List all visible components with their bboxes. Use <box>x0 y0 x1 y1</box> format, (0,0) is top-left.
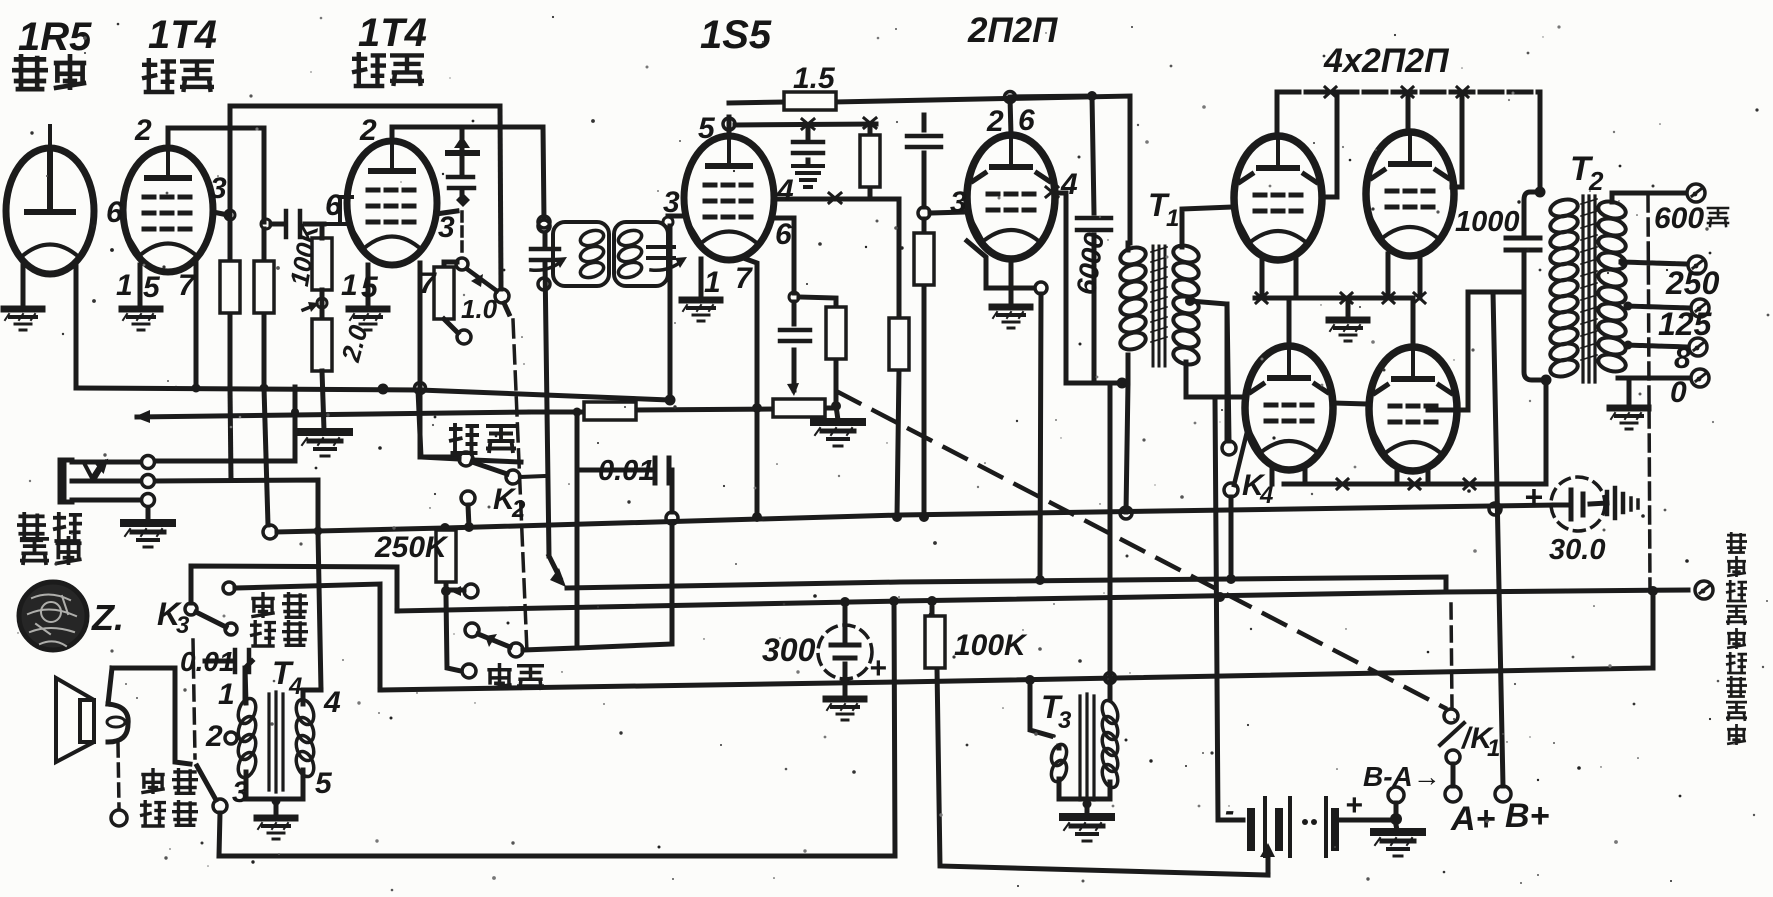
svg-text:30.0: 30.0 <box>1549 534 1605 566</box>
svg-text:0.01: 0.01 <box>598 455 654 487</box>
svg-text:3: 3 <box>663 186 680 219</box>
svg-text:0.01: 0.01 <box>180 646 235 677</box>
svg-text:250: 250 <box>1665 265 1720 301</box>
svg-text:2: 2 <box>205 720 223 753</box>
svg-text:1T4: 1T4 <box>148 13 217 57</box>
svg-text:B-A→: B-A→ <box>1363 761 1441 792</box>
svg-text:4: 4 <box>776 174 794 207</box>
svg-text:1: 1 <box>218 678 235 711</box>
svg-text:5: 5 <box>698 112 716 145</box>
svg-text:B+: B+ <box>1505 797 1550 835</box>
svg-text:4x2П2П: 4x2П2П <box>1323 42 1450 80</box>
svg-text:1.0: 1.0 <box>461 294 498 324</box>
svg-text:2: 2 <box>986 105 1004 138</box>
svg-text:1T4: 1T4 <box>358 11 427 55</box>
svg-text:7: 7 <box>178 269 196 302</box>
svg-text:3: 3 <box>950 186 967 219</box>
svg-text:5: 5 <box>143 271 161 304</box>
svg-text:300: 300 <box>762 632 816 668</box>
svg-text:Z.: Z. <box>91 597 124 638</box>
svg-text:1: 1 <box>1166 205 1179 232</box>
svg-text:600: 600 <box>1654 202 1704 235</box>
svg-text:6: 6 <box>106 196 123 229</box>
svg-text:+: + <box>1345 789 1363 822</box>
svg-text:4: 4 <box>323 686 341 719</box>
svg-text:1: 1 <box>341 269 358 302</box>
svg-text:1: 1 <box>704 266 721 299</box>
svg-text:1: 1 <box>1487 735 1500 762</box>
svg-text:1S5: 1S5 <box>700 13 772 57</box>
svg-text:6: 6 <box>775 218 792 251</box>
svg-text:6: 6 <box>1018 104 1035 137</box>
svg-text:4: 4 <box>1060 168 1078 201</box>
svg-text:4: 4 <box>1259 482 1273 509</box>
svg-text:3: 3 <box>438 211 455 244</box>
svg-text:5: 5 <box>315 767 333 800</box>
svg-text:2П2П: 2П2П <box>967 11 1058 50</box>
svg-text:3: 3 <box>210 172 227 205</box>
svg-text:1R5: 1R5 <box>18 15 92 59</box>
svg-text:1.5: 1.5 <box>793 62 836 95</box>
svg-text:3: 3 <box>232 776 249 809</box>
svg-text:3: 3 <box>176 612 190 639</box>
svg-text:5: 5 <box>361 271 379 304</box>
svg-text:7: 7 <box>419 267 437 300</box>
svg-text:6: 6 <box>325 189 342 222</box>
svg-text:125: 125 <box>1658 306 1713 342</box>
svg-text:1: 1 <box>116 269 133 302</box>
svg-text:100K: 100K <box>954 629 1028 662</box>
svg-text:+: + <box>869 652 887 685</box>
svg-text:-: - <box>1225 795 1234 826</box>
svg-text:3: 3 <box>1058 707 1072 734</box>
svg-text:8: 8 <box>1674 342 1691 375</box>
svg-text:4: 4 <box>288 673 302 700</box>
svg-text:2: 2 <box>359 114 377 147</box>
svg-text:+: + <box>1524 479 1543 515</box>
svg-text:1000: 1000 <box>1455 206 1520 238</box>
svg-text:2: 2 <box>511 496 526 523</box>
svg-text:2: 2 <box>134 114 152 147</box>
svg-text:250K: 250K <box>374 531 449 564</box>
svg-text:0: 0 <box>1670 376 1687 409</box>
svg-text:7: 7 <box>735 262 753 295</box>
svg-text:A+: A+ <box>1450 800 1496 838</box>
